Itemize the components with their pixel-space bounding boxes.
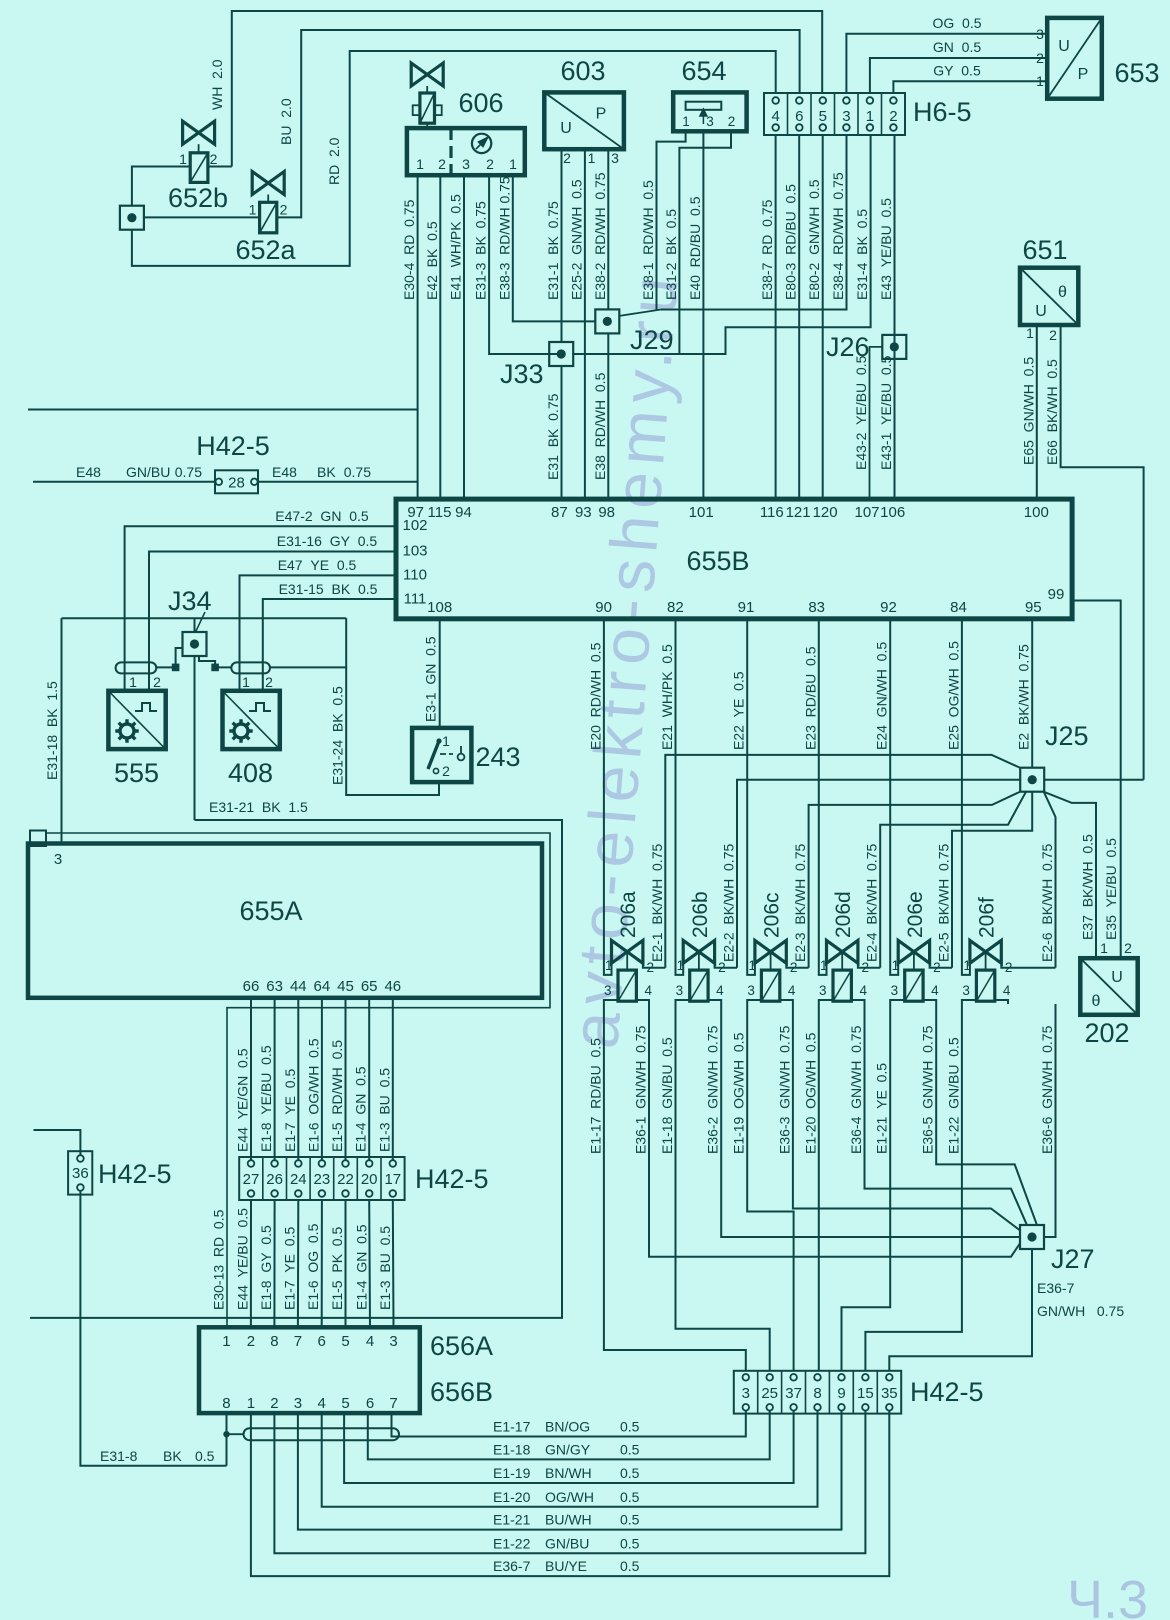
svg-text:H6-5: H6-5 [913, 97, 972, 127]
connector H6-5 [764, 93, 905, 135]
svg-text:0.75: 0.75 [175, 464, 202, 480]
svg-text:1: 1 [677, 958, 685, 973]
svg-text:3: 3 [54, 851, 62, 868]
svg-text:555: 555 [114, 758, 159, 788]
wire J26 left stub to E43-2 [870, 347, 883, 499]
wire E24 from 655B to 206e pin1 [890, 619, 898, 975]
actuator 408 [223, 691, 280, 749]
svg-text:E43 YE/BU 0.5: E43 YE/BU 0.5 [878, 198, 894, 300]
wire E2-3 riser to J25 bottom-left [809, 792, 1021, 968]
svg-text:3: 3 [962, 983, 970, 998]
node pill left stub [227, 1433, 244, 1435]
solenoid valve 206c [755, 940, 786, 1001]
wire E30-4 RD from 606-1 to 655B pin 97 [417, 175, 419, 499]
svg-text:GN/WH 0.75: GN/WH 0.75 [1037, 1303, 1124, 1319]
wire pin2 of 206b to E2 riser [715, 963, 737, 968]
sensor 651 (theta/U) [1020, 268, 1078, 325]
wire E36-7 GN/WH from J27 to H42-5 pin 35 [889, 1249, 1032, 1371]
wire pin4 of 206e to E36 drop [923, 1000, 936, 1004]
gear icon of 555 [115, 719, 138, 742]
svg-text:E80-3 RD/BU 0.5: E80-3 RD/BU 0.5 [783, 184, 799, 300]
wire from 655A pin 64 to H42-5 [321, 998, 323, 1160]
wire H42-5 to 656A [250, 1200, 252, 1327]
leader line J34 [196, 612, 205, 631]
svg-text:E48: E48 [272, 464, 297, 480]
svg-text:E1-21: E1-21 [493, 1512, 531, 1528]
pin 3 cell of 655A [30, 831, 46, 847]
wire E38-3 RD/WH from 606 to J29 [513, 175, 596, 321]
svg-text:J33: J33 [500, 359, 544, 389]
svg-text:1: 1 [892, 958, 900, 973]
wire pin3 of 206a [604, 1000, 618, 1004]
svg-text:2: 2 [280, 202, 288, 218]
svg-text:120: 120 [813, 504, 838, 521]
svg-text:E36-4 GN/WH 0.75: E36-4 GN/WH 0.75 [848, 1025, 864, 1154]
svg-text:206f: 206f [976, 897, 999, 938]
svg-text:6: 6 [318, 1333, 326, 1350]
svg-text:2: 2 [210, 151, 218, 167]
connector block 656A/656B [199, 1327, 420, 1413]
svg-text:1: 1 [963, 958, 971, 973]
svg-text:4: 4 [931, 983, 939, 998]
wire E31-4 BK from H6-5 pin1 to J33 [572, 135, 870, 354]
wire feed from left edge to E30-4 net [28, 409, 418, 411]
svg-text:E38-7 RD 0.75: E38-7 RD 0.75 [759, 199, 775, 300]
svg-text:1: 1 [1026, 325, 1034, 341]
svg-text:1: 1 [222, 1333, 230, 1350]
wire E21 from 655B to 206b pin1 [676, 619, 684, 975]
shield oval above 408 [231, 662, 270, 673]
svg-text:23: 23 [314, 1171, 331, 1188]
svg-text:3: 3 [611, 150, 619, 166]
wire E31-1 BK from 603-2 to J33 [561, 149, 563, 342]
svg-text:E37 BK/WH 0.5: E37 BK/WH 0.5 [1080, 834, 1096, 940]
wire H42-5 to 656A [345, 1200, 347, 1327]
svg-text:1: 1 [247, 1395, 255, 1412]
actuator 555 [108, 691, 165, 749]
svg-text:5: 5 [341, 1395, 349, 1412]
wire pin3 of 206f [962, 1000, 977, 1004]
wire E31-18 BK into 655A top [61, 618, 63, 843]
svg-text:GY 0.5: GY 0.5 [933, 63, 981, 79]
svg-text:3: 3 [389, 1333, 397, 1350]
svg-text:9: 9 [837, 1385, 845, 1402]
wire H42-5 to 656A [297, 1200, 299, 1327]
svg-text:116: 116 [760, 504, 784, 521]
node left leg [172, 664, 180, 672]
svg-text:103: 103 [402, 543, 427, 560]
svg-text:E36-1 GN/WH 0.75: E36-1 GN/WH 0.75 [633, 1025, 649, 1154]
svg-text:E42 BK 0.5: E42 BK 0.5 [424, 221, 440, 300]
svg-text:E2-6 BK/WH 0.75: E2-6 BK/WH 0.75 [1039, 844, 1055, 962]
wire E37 BK/WH from J25 to 202 pin1 [1044, 792, 1096, 958]
svg-text:2: 2 [889, 108, 897, 125]
connector H42-5 (27-17) [239, 1157, 404, 1200]
wire from 655A pin 46 to H42-5 [392, 998, 394, 1160]
wire E80-3 RD/BU to 655B pin 121 [798, 135, 800, 499]
svg-text:3: 3 [891, 983, 899, 998]
pulse icon of 408 [249, 703, 271, 711]
svg-text:H42-5: H42-5 [98, 1159, 172, 1189]
svg-text:E41 WH/PK 0.5: E41 WH/PK 0.5 [448, 194, 464, 300]
svg-text:Ч.3: Ч.3 [1067, 1570, 1148, 1620]
svg-text:E36-2 GN/WH 0.75: E36-2 GN/WH 0.75 [705, 1025, 721, 1154]
wire RD 2.0 from junction to H6-5 pin 4 [132, 51, 776, 266]
svg-text:93: 93 [575, 504, 592, 521]
svg-text:206c: 206c [761, 892, 784, 938]
svg-text:E1-19: E1-19 [493, 1465, 531, 1481]
svg-text:E1-4 GN 0.5: E1-4 GN 0.5 [354, 1224, 370, 1310]
wire J34 left leg [176, 648, 183, 667]
svg-text:102: 102 [402, 517, 427, 534]
svg-text:P: P [1078, 66, 1089, 83]
svg-text:E2-3 BK/WH 0.75: E2-3 BK/WH 0.75 [792, 844, 808, 962]
valve 652a [252, 172, 284, 233]
wire WH 2.0 from 652b pin2 to H6-5 pin 5 [232, 11, 822, 167]
wire E1-21 BU/WH from 656B to H42-5 [298, 1411, 842, 1530]
wire pin4 of 206c to E36 drop [780, 1000, 793, 1004]
svg-text:115: 115 [428, 504, 452, 521]
svg-text:E36-5 GN/WH 0.75: E36-5 GN/WH 0.75 [920, 1025, 936, 1154]
svg-text:0.5: 0.5 [620, 1465, 640, 1481]
wire H42-5 to 656A [321, 1200, 323, 1327]
wire pin4 of 206f to E36 drop [995, 1000, 1008, 1004]
wire E25 from 655B to 206f pin1 [962, 619, 970, 975]
wire pin4 of 206d to E36 drop [851, 1000, 864, 1004]
svg-text:E30-4 RD 0.75: E30-4 RD 0.75 [401, 199, 417, 300]
wire pin4 of 206a to E36 drop [636, 1000, 649, 1004]
svg-text:θ: θ [1092, 993, 1101, 1010]
wire E36-7 BU/YE from 656B to H42-5 [251, 1411, 889, 1577]
wire pin3 of 206b [676, 1000, 690, 1004]
svg-text:17: 17 [384, 1171, 401, 1188]
wire E36-5 to J27 top-right [936, 1004, 1037, 1225]
svg-text:7: 7 [389, 1395, 397, 1412]
svg-text:206d: 206d [832, 891, 855, 938]
svg-text:83: 83 [808, 599, 825, 616]
svg-text:E30-13 RD 0.5: E30-13 RD 0.5 [211, 1209, 227, 1310]
svg-text:E1-20 OG/WH 0.5: E1-20 OG/WH 0.5 [802, 1032, 818, 1154]
svg-text:E1-8 YE/BU 0.5: E1-8 YE/BU 0.5 [258, 1045, 274, 1152]
svg-text:E1-8 GY 0.5: E1-8 GY 0.5 [258, 1225, 274, 1310]
resistive sender 654 [673, 92, 746, 131]
svg-text:H42-5: H42-5 [415, 1164, 489, 1194]
svg-text:95: 95 [1025, 599, 1042, 616]
svg-text:206a: 206a [617, 891, 640, 938]
svg-text:GN 0.5: GN 0.5 [933, 39, 981, 55]
svg-text:E1-6 OG 0.5: E1-6 OG 0.5 [305, 1223, 321, 1310]
wire E1-18 GN/GY from 656B to H42-5 [368, 1411, 770, 1460]
svg-text:94: 94 [455, 504, 472, 521]
svg-text:2: 2 [1036, 50, 1044, 66]
svg-text:66: 66 [243, 978, 260, 995]
wire E1-17 to H42-5 [604, 1004, 746, 1371]
svg-text:0.5: 0.5 [195, 1448, 215, 1464]
svg-text:2: 2 [1049, 327, 1057, 343]
svg-text:3: 3 [819, 983, 827, 998]
svg-text:E20 RD/WH 0.5: E20 RD/WH 0.5 [587, 642, 603, 750]
svg-text:H42-5: H42-5 [910, 1377, 984, 1407]
wire pin3 of 206d [819, 1000, 833, 1004]
svg-text:E31 BK 0.75: E31 BK 0.75 [545, 393, 561, 480]
connector H42-5 cell 28 [215, 470, 258, 493]
wire pin2 of 206c to E2 riser [786, 963, 808, 968]
svg-text:656A: 656A [430, 1331, 493, 1361]
wire J25 right arm to E66 [1044, 779, 1143, 781]
wire 652b pin1 to junction box [132, 167, 190, 207]
svg-text:3: 3 [747, 983, 755, 998]
svg-text:2: 2 [265, 674, 273, 690]
svg-text:P: P [596, 106, 607, 123]
wire from 655A pin 63 to H42-5 [274, 998, 276, 1160]
wire E36-1 to J27 bottom-left [649, 1004, 1020, 1257]
svg-text:654: 654 [681, 56, 726, 86]
svg-text:101: 101 [689, 504, 714, 521]
svg-text:44: 44 [290, 978, 307, 995]
svg-text:GN/BU: GN/BU [126, 464, 170, 480]
svg-text:E40 RD/BU 0.5: E40 RD/BU 0.5 [687, 196, 703, 300]
svg-text:0.5: 0.5 [620, 1419, 640, 1435]
wire J34 right leg [199, 656, 215, 667]
wire E1-18 to H42-5 [676, 1004, 770, 1371]
svg-text:107: 107 [854, 504, 879, 521]
svg-text:63: 63 [266, 978, 283, 995]
svg-text:6: 6 [795, 108, 803, 125]
svg-text:E31-3 BK 0.75: E31-3 BK 0.75 [473, 201, 489, 300]
svg-text:35: 35 [881, 1385, 898, 1402]
svg-text:BK: BK [163, 1448, 182, 1464]
wire E80-2 GN/WH to 655B pin 120 [822, 135, 824, 499]
svg-text:E36-7: E36-7 [1037, 1280, 1075, 1296]
svg-text:3: 3 [294, 1395, 302, 1412]
valve 652b [183, 121, 215, 182]
wire pin4 of 206b to E36 drop [708, 1000, 721, 1004]
svg-text:5: 5 [341, 1333, 349, 1350]
svg-text:E36-7: E36-7 [493, 1558, 531, 1574]
svg-text:65: 65 [361, 978, 378, 995]
wire E25-2 GN/WH from 603-1 to 655B pin 93 [584, 149, 586, 499]
wire E1-22 to H42-5 [865, 1004, 962, 1371]
svg-text:7: 7 [294, 1333, 302, 1350]
wire pin2 of 206a to E2 riser [643, 963, 665, 968]
svg-text:E2 BK/WH 0.75: E2 BK/WH 0.75 [1016, 644, 1032, 750]
svg-text:28: 28 [228, 475, 245, 492]
svg-text:652a: 652a [235, 235, 296, 265]
svg-text:U: U [1035, 303, 1047, 320]
svg-text:655A: 655A [239, 896, 302, 926]
svg-text:E1-22: E1-22 [493, 1535, 531, 1551]
svg-text:99: 99 [1048, 586, 1065, 603]
svg-text:1: 1 [442, 733, 450, 749]
solenoid valve 206f [970, 940, 1001, 1001]
svg-text:84: 84 [950, 599, 967, 616]
svg-text:E1-5 RD/WH 0.5: E1-5 RD/WH 0.5 [329, 1040, 345, 1152]
wire 652b pin2 stub [208, 166, 232, 168]
wire pin2 of 206d to E2 riser [858, 963, 880, 968]
svg-text:82: 82 [667, 599, 684, 616]
svg-text:GN/BU: GN/BU [545, 1535, 589, 1551]
wire E2-6 riser to J25 bottom-right [1044, 792, 1056, 968]
svg-text:8: 8 [813, 1385, 821, 1402]
wire E2-2 riser to J25 left [737, 780, 1020, 968]
wire OG 0.5 H6-5 pin3 to 653 pin3 [846, 34, 1047, 93]
svg-text:E44 YE/GN 0.5: E44 YE/GN 0.5 [235, 1048, 251, 1152]
svg-text:651: 651 [1022, 235, 1067, 265]
svg-text:27: 27 [243, 1171, 260, 1188]
svg-text:E1-17: E1-17 [493, 1419, 531, 1435]
svg-text:20: 20 [361, 1171, 378, 1188]
svg-text:121: 121 [786, 504, 811, 521]
shield oval below 656B [244, 1428, 400, 1440]
svg-text:GN/GY: GN/GY [545, 1441, 591, 1457]
svg-text:E36-6 GN/WH 0.75: E36-6 GN/WH 0.75 [1039, 1025, 1055, 1154]
svg-text:0.5: 0.5 [620, 1441, 640, 1457]
svg-text:E38-4 RD/WH 0.75: E38-4 RD/WH 0.75 [830, 172, 846, 300]
wire E1-17 BN/OG from 656B to H42-5 [392, 1411, 746, 1437]
svg-text:U: U [1111, 969, 1123, 986]
svg-text:E31-16 GY 0.5: E31-16 GY 0.5 [277, 533, 378, 549]
svg-text:J25: J25 [1045, 721, 1089, 751]
svg-text:4: 4 [644, 983, 652, 998]
wire E1-19 BN/WH from 656B to H42-5 [344, 1411, 793, 1483]
wire E31 ground distribution [62, 617, 347, 619]
svg-text:E47 YE 0.5: E47 YE 0.5 [278, 557, 357, 573]
wire E38-1 RD/WH from 654-1 to J29 [657, 131, 686, 309]
svg-text:45: 45 [337, 978, 354, 995]
svg-text:E1-3 BU 0.5: E1-3 BU 0.5 [376, 1068, 392, 1152]
svg-text:1: 1 [866, 108, 874, 125]
svg-text:4: 4 [859, 983, 867, 998]
svg-text:90: 90 [595, 599, 612, 616]
svg-text:E43-1 YE/BU 0.5: E43-1 YE/BU 0.5 [878, 355, 894, 470]
ECU 655A [28, 844, 542, 998]
svg-text:J27: J27 [1051, 1244, 1095, 1274]
wire E41 WH/PK from 606-3 to 655B pin 94 [463, 175, 465, 499]
svg-text:E35 YE/BU 0.5: E35 YE/BU 0.5 [1103, 838, 1119, 940]
svg-text:1: 1 [820, 958, 828, 973]
wire above H42-5 36 [34, 1130, 81, 1155]
node right leg [211, 664, 219, 672]
wire from 655A pin 45 to H42-5 [345, 998, 347, 1160]
svg-text:E2-5 BK/WH 0.75: E2-5 BK/WH 0.75 [936, 844, 952, 962]
svg-text:3: 3 [842, 108, 850, 125]
svg-text:0.5: 0.5 [620, 1489, 640, 1505]
shield oval above 555 [116, 662, 157, 673]
wire from 655A pin 65 to H42-5 [368, 998, 370, 1160]
svg-text:E31-21 BK 1.5: E31-21 BK 1.5 [209, 799, 308, 815]
svg-text:653: 653 [1114, 58, 1159, 88]
svg-text:E25 OG/WH 0.5: E25 OG/WH 0.5 [945, 641, 961, 750]
svg-text:E43-2 YE/BU 0.5: E43-2 YE/BU 0.5 [853, 355, 869, 470]
svg-text:408: 408 [228, 758, 273, 788]
sensor 202 (theta/U) [1080, 958, 1137, 1015]
svg-text:6: 6 [366, 1395, 374, 1412]
svg-text:91: 91 [738, 599, 755, 616]
pulse icon of 555 [135, 703, 157, 711]
svg-text:98: 98 [598, 504, 615, 521]
svg-text:652b: 652b [168, 183, 228, 213]
wire E31-2 BK from 654-2 to J33 arm [679, 131, 731, 354]
svg-text:3: 3 [706, 114, 714, 129]
svg-text:4: 4 [1003, 983, 1011, 998]
wire diagonal into J29 [619, 310, 661, 317]
wire E1-20 OG/WH from 656B to H42-5 [322, 1411, 818, 1507]
wire E31-3 BK from 606 to J33 [489, 175, 561, 354]
wire E22 from 655B to 206c pin1 [747, 619, 755, 975]
valve symbol above 606 [411, 63, 443, 128]
wire pin3 of 206c [747, 1000, 761, 1004]
svg-text:E44 YE/BU 0.5: E44 YE/BU 0.5 [234, 1208, 250, 1310]
svg-text:E24 GN/WH 0.5: E24 GN/WH 0.5 [874, 642, 890, 750]
wire E1-22 GN/BU from 656B to H42-5 [274, 1411, 865, 1554]
svg-text:E31-15 BK 0.5: E31-15 BK 0.5 [279, 581, 378, 597]
junction J34 [183, 632, 207, 656]
wire E36-4 to J27 top [865, 1004, 1028, 1225]
svg-text:J29: J29 [630, 325, 674, 355]
wire E31-16 GY from 655B-103 to 555 pin2 [149, 552, 396, 691]
wire from 655A pin 44 to H42-5 [297, 998, 299, 1160]
solenoid valve 206e [898, 940, 929, 1001]
svg-text:202: 202 [1084, 1018, 1129, 1048]
svg-text:E1-7 YE 0.5: E1-7 YE 0.5 [281, 1227, 297, 1310]
svg-text:3: 3 [676, 983, 684, 998]
svg-text:BU/WH: BU/WH [545, 1512, 592, 1528]
svg-text:RD 2.0: RD 2.0 [326, 137, 342, 185]
wire E38-7 RD from H6-5 pin4 to 655B pin 116 [775, 135, 777, 499]
wire to 555 shield [156, 666, 175, 668]
wire E36-2 to J27 left [721, 1004, 1020, 1237]
wire E48 BK 0.75 to pin 97 net [258, 481, 417, 483]
wire GY 0.5 H6-5 pin2 to 653 pin1 [893, 81, 1047, 93]
wire E38 RD/WH from J29 to 655B pin 98 [607, 334, 609, 500]
junction J26 [882, 335, 906, 359]
wire E2-5 riser to J25 bottom [952, 792, 1032, 968]
wire J34 down to E31-21 [194, 656, 196, 820]
svg-text:E2-2 BK/WH 0.75: E2-2 BK/WH 0.75 [721, 844, 737, 962]
svg-text:87: 87 [551, 504, 568, 521]
svg-text:2: 2 [247, 1333, 255, 1350]
junction box node left [120, 206, 144, 230]
wire E31-24 BK from 408 shield to 243 pin2 [270, 667, 439, 795]
svg-text:1: 1 [682, 114, 690, 129]
svg-text:3: 3 [604, 983, 612, 998]
wire E38-2 RD/WH from 603-3 to J29 [607, 149, 609, 309]
svg-text:E1-18: E1-18 [493, 1441, 531, 1457]
svg-text:4: 4 [772, 108, 780, 125]
svg-text:92: 92 [880, 599, 897, 616]
svg-text:E1-3 BU 0.5: E1-3 BU 0.5 [377, 1226, 393, 1310]
svg-text:4: 4 [788, 983, 796, 998]
svg-text:1: 1 [1036, 73, 1044, 89]
wire E31 BK from J33 to 655B pin 87 [561, 366, 563, 499]
svg-text:606: 606 [458, 88, 503, 118]
wire E1-19 to H42-5 [747, 1004, 793, 1371]
svg-text:E1-17 RD/BU 0.5: E1-17 RD/BU 0.5 [587, 1038, 603, 1154]
svg-text:E1-18 GN/BU 0.5: E1-18 GN/BU 0.5 [659, 1037, 675, 1154]
svg-text:24: 24 [290, 1171, 307, 1188]
sensor 603 (U/P) [544, 92, 624, 149]
svg-text:E47-2 GN 0.5: E47-2 GN 0.5 [275, 508, 369, 524]
svg-text:1: 1 [179, 151, 187, 167]
ECU 655B [396, 499, 1072, 619]
solenoid valve 206b [683, 940, 714, 1001]
wire H42-5 to 656A [273, 1200, 275, 1327]
svg-text:E1-22 GN/BU 0.5: E1-22 GN/BU 0.5 [945, 1037, 961, 1154]
wire E1-20 straight to H42-5 pin 8 [818, 1004, 820, 1371]
svg-text:110: 110 [403, 567, 427, 584]
wire E38-4 RD/WH from H6-5 pin3 to J29 [661, 135, 847, 310]
svg-text:E36-3 GN/WH 0.75: E36-3 GN/WH 0.75 [776, 1025, 792, 1154]
